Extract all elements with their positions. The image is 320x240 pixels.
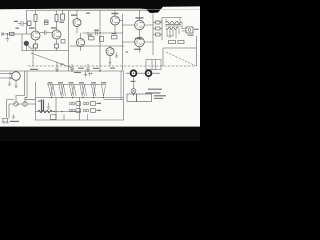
ground phono left [8,81,11,85]
node dots row [87,32,88,33]
wire V1 cathode [35,40,37,51]
wire row bottom [70,45,124,47]
resistor row R8 [89,37,95,40]
resistor R6 cathode V2 [55,44,59,48]
wire left column [21,34,23,51]
node dots mid line [53,111,54,112]
resistor R12 [156,27,161,30]
wire V1 plate [35,11,37,32]
wire lower bus first stage [22,50,69,52]
label V5 [136,17,144,18]
speaker box SP1 [186,27,193,33]
label bus D [110,68,115,69]
resistor R13 [156,33,161,36]
tube V5 output upper [135,20,145,30]
resistor R17 [61,40,65,44]
label speaker B [194,29,199,30]
tube V3b [76,38,84,46]
tube V8 tremolo [106,48,114,56]
label zig3 [69,82,74,83]
resistor R3 plate V1 [34,15,37,22]
label B [126,52,129,53]
wire T1 lead comb [166,19,180,39]
label R5 [60,22,65,23]
resistor R16 on rail [61,14,65,20]
label speaker A [188,35,194,36]
label heater1 [97,103,102,104]
label zig4 [79,82,84,83]
label plug [10,121,19,122]
tube V6 output lower [135,37,145,47]
potentiometer P1 volume [131,70,137,76]
resistor R1 grid box [28,21,32,26]
label chassis [30,69,38,70]
tube V1 triode [31,31,40,40]
resistor R5 plate V2 [55,15,58,22]
ground mains [12,115,15,119]
resistor row R10 [112,36,118,39]
label T2 [38,101,42,102]
chassis dashed line [28,65,196,67]
resistor R4 cathode V1 [34,44,38,48]
label zig1 [48,82,53,83]
resistor R2 input series [10,32,15,35]
node dots ground bus [56,70,57,71]
label pot [131,81,136,82]
resistor R15 [178,41,184,44]
box bottom line [36,119,124,121]
wire bottom ticks [64,115,88,121]
capacitor C1 [18,21,27,26]
label heater2 [97,110,102,111]
label V2 [51,27,57,28]
label V1 [29,27,35,28]
capacitor can E2 [69,109,72,112]
wire ground bus [0,70,123,72]
resistor R11 [156,21,161,24]
rectifier zigzag Z1 [49,85,56,96]
wire V4 leads [115,11,123,34]
wire V2 plate [56,11,58,31]
tiny text labels as gray marks [10,13,199,123]
wire right column stage1 [68,11,70,72]
box inner verticals [56,98,124,121]
faint crease line under top bar [35,8,200,11]
resistor R14 feedback [169,41,176,44]
power transformer T2 winding [38,110,52,113]
label bus A [78,68,84,69]
terminal strip box A [127,94,137,102]
output transformer T1 primary [166,21,180,24]
wire supply bus [36,97,124,99]
potentiometer VR1 [24,41,29,46]
wire OT column [156,18,182,41]
label C1 [14,21,18,22]
capacitor C6 [87,64,90,71]
capacitor C5 [71,64,74,71]
rectifier zigzag Z6 [102,85,106,96]
rectifier zigzag Z4 [80,85,87,96]
label R9 [94,30,99,31]
label E1 [81,102,83,104]
tremolo box [146,60,161,70]
tube V4 phase inverter [111,16,120,25]
label C4 [60,64,64,65]
wire input line [2,33,32,35]
heater pair H1 [83,102,86,105]
label V6 top [135,38,142,39]
rectifier zigzag Z5 [92,85,96,96]
label bus C [93,68,99,69]
power transformer T2 core [42,100,44,111]
label tremolo B [146,92,161,93]
potentiometer P2 tone [146,70,152,76]
wire right column mid [122,14,124,71]
bottom black bar [0,127,200,141]
output transformer T1 secondary [166,27,178,29]
wire right lower [163,36,197,66]
wire diag left fold [31,53,74,69]
wire mid vertical [99,11,101,72]
tube V2 triode [52,30,61,39]
AC plug [2,119,10,124]
wire output tubes column [123,11,154,53]
paper background [0,0,200,141]
label V3 [71,15,77,16]
ground phono center [15,80,18,87]
wire left vertical drop from rail [26,11,28,35]
capacitor C7 plus [88,73,92,77]
label V6 [134,49,141,50]
ground input [6,34,9,41]
tube V3a [73,19,81,27]
output transformer T1 core [166,25,181,26]
capacitor can E1 [69,102,72,105]
label strip2 [154,98,163,99]
capacitor C4 [56,62,59,71]
box left edge [35,82,37,120]
wire resistor leads [153,23,162,35]
rectifier row line [47,84,106,86]
label zig2 [58,82,63,83]
node dots supply [51,97,52,98]
input jack J1 [2,32,4,36]
wire screen column [152,13,154,55]
capacitor C3 [96,31,97,35]
label strip [154,95,166,96]
wire B+ top rail [26,10,148,12]
wire mid coupling row [83,32,123,34]
label input [16,28,20,29]
heater pair H2 [83,109,86,112]
label R10 [112,33,117,34]
ground supply [47,103,50,110]
rectifier zigzag Z3 [70,85,77,96]
box mid line [36,111,82,113]
wire V3 column [77,11,81,51]
fuse F1 [14,102,18,106]
label rail mid [86,13,90,14]
phono input tube V7 [12,72,21,81]
ground below bus [84,71,87,77]
wire pots [126,73,160,96]
label V4 [112,13,119,14]
wire V2 cathode [56,39,58,51]
resistor R18 [45,20,49,25]
terminal strip box B [137,94,152,102]
wire diag dashed right [166,52,196,66]
switch S1 [23,102,27,106]
label box bottom [51,115,57,120]
resistor row R9 [100,37,104,42]
label zig6 [101,82,106,83]
node dot input [7,33,8,34]
label tremolo A [148,89,162,90]
top black bar [0,0,200,13]
label zig5 [91,82,96,83]
label R3 [44,22,49,23]
wire terminal drop [104,71,124,100]
wire mains [7,100,36,118]
pilot lamp [131,89,136,94]
wire down columns left [16,71,27,102]
label bus B [74,72,81,73]
wire phono arrows [0,73,12,80]
capacitor C2 coupling [40,31,52,35]
rectifier zigzag Z2 [59,85,66,96]
label R8 [88,34,93,35]
